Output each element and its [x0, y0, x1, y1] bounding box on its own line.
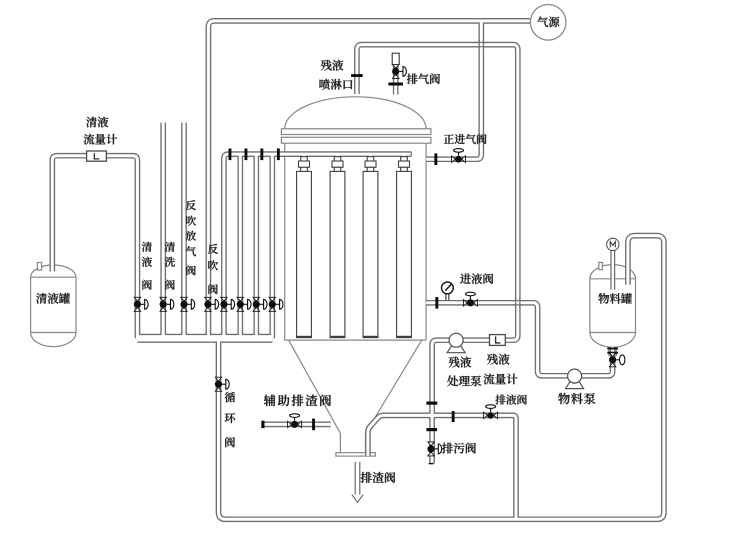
label 清液罐	[36, 293, 47, 304]
label 残液/喷淋口	[321, 60, 332, 71]
label 正进气阀	[444, 134, 454, 143]
label 清洗阀 (vertical)	[165, 242, 175, 252]
valve: 反吹放气阀	[180, 297, 194, 311]
valve: 排液阀	[484, 405, 498, 419]
flow meter: 残液流量计 L-box	[490, 335, 506, 346]
label 进液阀	[460, 273, 471, 283]
slag discharge arrow (排渣阀)	[352, 462, 363, 502]
label 反吹放气阀 (vertical)	[186, 200, 196, 210]
valve: 排气阀	[392, 64, 406, 78]
flow meter: 清液流量计 L-box	[87, 151, 107, 161]
valve: 反吹阀	[204, 297, 218, 311]
label 反吹阀 (vertical)	[208, 244, 218, 254]
label 物料泵	[558, 393, 569, 404]
label 清液/流量计	[86, 117, 97, 127]
valve row: 清液阀	[134, 297, 148, 311]
valve: 进液阀	[463, 292, 477, 306]
candle inlet valve 6	[237, 297, 251, 311]
label 循环阀 (vertical)	[225, 392, 236, 402]
pump: 物料泵	[566, 381, 584, 388]
label 清液阀 (vertical)	[142, 242, 152, 252]
clear liquid tank (清液罐)	[31, 263, 76, 347]
valve: 清洗阀	[160, 297, 174, 311]
pressure gauge	[442, 282, 454, 300]
filter candles (4) with top fittings	[297, 157, 412, 338]
candle inlet valve 7	[253, 297, 267, 311]
label 气源	[537, 17, 548, 28]
motor M	[607, 238, 619, 250]
pump: 残液处理泵	[447, 345, 465, 352]
label 辅助排渣阀	[264, 395, 276, 407]
label 物料罐	[598, 293, 609, 304]
aux slag line end cap	[261, 421, 264, 428]
material tank (物料罐)	[590, 262, 636, 356]
pipe: motor stirrer shaft	[52, 21, 664, 519]
flange ticks	[229, 74, 618, 431]
valve: 循环阀	[215, 377, 229, 391]
valve: 辅助排渣阀	[288, 414, 302, 428]
label 残液/流量计	[487, 354, 498, 365]
label 排渣阀	[361, 472, 372, 483]
valve: 正进气阀	[452, 149, 466, 163]
valve: 物料罐 outlet valve	[609, 353, 625, 367]
candle inlet valve 5	[220, 297, 234, 311]
main filter vessel V1 (dome, flange, shell, cone, outlet)	[281, 97, 431, 456]
label 排液阀	[495, 395, 505, 405]
pipe crossing patches	[476, 40, 522, 308]
label 残液/处理泵	[449, 357, 460, 368]
valve: 排污阀	[427, 442, 441, 456]
candle inlet valve 8	[269, 297, 283, 311]
label 排气阀	[407, 74, 418, 84]
gas source circle	[530, 5, 566, 41]
label 排污阀	[442, 443, 453, 454]
